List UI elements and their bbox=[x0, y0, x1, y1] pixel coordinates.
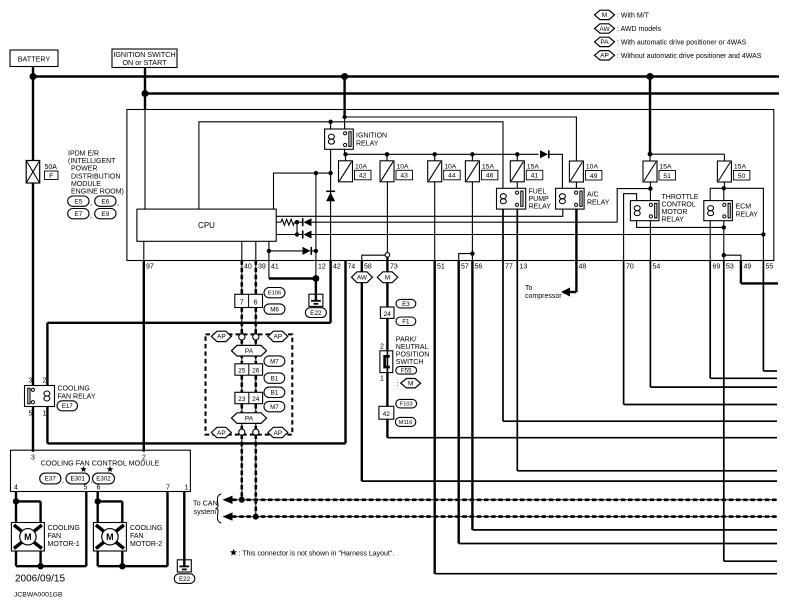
connector E5 bbox=[68, 196, 89, 206]
hexagon AP bottom-left bbox=[211, 427, 231, 437]
svg-text:RELAY: RELAY bbox=[587, 200, 610, 207]
wire 40 dashed mid bbox=[241, 308, 243, 335]
connector circle 73 bbox=[385, 253, 390, 258]
svg-text:15A: 15A bbox=[527, 163, 540, 170]
wire ECM contact top bbox=[723, 188, 725, 200]
node line C right bbox=[314, 249, 318, 253]
wire to ground E22 (IPDM) bbox=[315, 279, 317, 295]
svg-text:AP: AP bbox=[217, 334, 226, 341]
svg-text:PARK/: PARK/ bbox=[396, 337, 417, 344]
hexagon AP top-right bbox=[268, 331, 288, 341]
svg-text:AP: AP bbox=[274, 334, 283, 341]
svg-text:M6: M6 bbox=[270, 306, 279, 313]
svg-text:7: 7 bbox=[240, 299, 244, 306]
wire branch to 57 bbox=[459, 254, 473, 261]
svg-text:10A: 10A bbox=[586, 164, 599, 171]
hexagon AP bottom-right bbox=[268, 427, 288, 437]
wire 50A to cooling fan relay bbox=[32, 183, 34, 386]
connector box 24 (E3/F1) bbox=[380, 307, 394, 318]
node fuse50 bottom bbox=[722, 186, 726, 190]
relay cooling fan E17 bbox=[25, 386, 55, 407]
svg-text:77: 77 bbox=[505, 264, 513, 271]
wire 39 dashed to CAN bbox=[255, 435, 257, 517]
wire 58 to right edge bbox=[362, 480, 777, 482]
svg-text:M: M bbox=[24, 532, 32, 542]
connector M116 bbox=[395, 417, 415, 426]
node ignition relay coil tap bbox=[328, 120, 332, 124]
wire ignition relay contact top stub bbox=[344, 117, 346, 129]
connector E6 bbox=[95, 196, 116, 206]
connector F55 bbox=[396, 367, 417, 375]
svg-text:system: system bbox=[194, 507, 217, 516]
svg-text:58: 58 bbox=[364, 264, 372, 271]
svg-text:COOLING: COOLING bbox=[130, 525, 162, 532]
connector E302 bbox=[93, 473, 115, 484]
star E301 bbox=[80, 466, 86, 472]
svg-text:3: 3 bbox=[31, 455, 35, 462]
wire ignition relay contact bottom bbox=[344, 149, 346, 154]
node CAN1 wire40 bbox=[239, 497, 245, 503]
svg-text:PUMP: PUMP bbox=[529, 196, 550, 203]
svg-text:M: M bbox=[385, 275, 390, 282]
svg-text:RELAY: RELAY bbox=[736, 212, 759, 219]
svg-text:43: 43 bbox=[400, 173, 408, 180]
svg-text:ENGINE ROOM): ENGINE ROOM) bbox=[71, 189, 124, 196]
CAN bus line 1 bbox=[232, 499, 777, 501]
svg-text:AP: AP bbox=[274, 430, 283, 437]
svg-text:A/C: A/C bbox=[587, 192, 599, 199]
svg-text:FAN RELAY: FAN RELAY bbox=[58, 394, 96, 401]
wire to ECM coil top bbox=[710, 188, 724, 200]
fuse bus bbox=[345, 153, 539, 155]
hexagon AW on wire 58 bbox=[352, 272, 373, 283]
motor cooling fan motor-1 bbox=[11, 523, 44, 552]
battery box bbox=[10, 50, 58, 67]
hexagon M on wire 73 bbox=[377, 272, 397, 283]
svg-text:CPU: CPU bbox=[198, 221, 215, 230]
wire ECM contact bottom pin 53 bbox=[723, 221, 725, 261]
wire fuel pump coil bottom pin 77 bbox=[502, 209, 504, 421]
svg-text:53: 53 bbox=[726, 264, 734, 271]
fusible link 50A F bbox=[26, 161, 40, 184]
svg-text:6: 6 bbox=[97, 485, 101, 492]
svg-text:2: 2 bbox=[43, 378, 47, 385]
wire ignition relay feed bbox=[343, 77, 345, 118]
diode line B bbox=[304, 231, 312, 239]
svg-text:ECM: ECM bbox=[736, 204, 752, 211]
power bus line 1 bbox=[33, 75, 779, 77]
svg-text:10A: 10A bbox=[355, 163, 368, 170]
CPU box bbox=[137, 209, 276, 241]
svg-text:E301: E301 bbox=[71, 476, 86, 483]
connector F1 bbox=[396, 317, 416, 326]
svg-text:compressor: compressor bbox=[525, 293, 562, 300]
legend M: With M/T bbox=[595, 10, 615, 19]
wire 39 dashed mid bbox=[255, 308, 257, 335]
svg-text:IPDM E/R: IPDM E/R bbox=[68, 151, 99, 158]
wire fuse43 to connector circle bbox=[386, 182, 388, 253]
svg-text:42: 42 bbox=[359, 173, 367, 180]
wire 53 below bbox=[723, 261, 725, 562]
link A-B bbox=[296, 222, 298, 234]
svg-text:46: 46 bbox=[486, 173, 494, 180]
svg-text:15A: 15A bbox=[482, 163, 495, 170]
node line173 x330.6 bbox=[328, 171, 332, 175]
wire ignition switch drop bbox=[144, 68, 146, 111]
CAN bus line 2 bbox=[232, 516, 777, 518]
svg-text:COOLING: COOLING bbox=[48, 525, 80, 532]
relay ECM bbox=[704, 201, 733, 221]
wire ignition relay coil top bbox=[330, 122, 332, 129]
node fuse51 bottom bbox=[648, 186, 652, 190]
wire 73 to PNP switch bbox=[386, 318, 388, 350]
svg-text:E9: E9 bbox=[101, 211, 109, 218]
svg-text:,: , bbox=[90, 213, 92, 220]
svg-text:RELAY: RELAY bbox=[529, 204, 552, 211]
wire CPU pin to ignition relay coil and fuel pump coil bbox=[199, 122, 503, 209]
wire throttle coil bottom to wire53 bbox=[637, 221, 724, 228]
wire bus to A/C relay coil bbox=[549, 154, 562, 188]
connector box 7|6 bbox=[235, 294, 263, 307]
wire pin41 to pin12 link bbox=[269, 277, 316, 279]
connector E106 bbox=[264, 288, 285, 298]
wire 55 below bbox=[762, 261, 764, 372]
node bus1 x344 bbox=[341, 73, 348, 80]
svg-text:24: 24 bbox=[384, 311, 392, 318]
svg-text:25: 25 bbox=[238, 367, 246, 374]
diode on wire 42 bbox=[326, 192, 335, 201]
node line C left bbox=[267, 249, 271, 253]
svg-text:44: 44 bbox=[448, 173, 456, 180]
svg-text:F: F bbox=[49, 173, 53, 180]
wire 49 below bbox=[740, 261, 742, 284]
svg-text:57: 57 bbox=[461, 264, 469, 271]
wire ignition relay contact to fuse49 bbox=[345, 117, 577, 161]
node line B end bbox=[761, 232, 765, 236]
svg-text:48: 48 bbox=[579, 264, 587, 271]
wire ignition to CPU bbox=[144, 110, 146, 209]
svg-text:23: 23 bbox=[238, 396, 246, 403]
ground E22 (module) bbox=[177, 560, 191, 572]
svg-text:CONTROL: CONTROL bbox=[662, 202, 696, 209]
connector M7 upper bbox=[264, 356, 285, 366]
svg-text:73: 73 bbox=[390, 264, 398, 271]
svg-text:RELAY: RELAY bbox=[662, 217, 685, 224]
wire 42 to relay coil bbox=[329, 261, 331, 323]
svg-text:M: M bbox=[106, 532, 114, 542]
svg-text:10A: 10A bbox=[397, 163, 410, 170]
svg-text:,: , bbox=[90, 200, 92, 207]
svg-text:NEUTRAL: NEUTRAL bbox=[396, 344, 429, 351]
svg-text:E6: E6 bbox=[101, 198, 109, 205]
svg-text:AW: AW bbox=[599, 26, 610, 33]
svg-text:COOLING: COOLING bbox=[58, 386, 90, 393]
svg-text:41: 41 bbox=[531, 173, 539, 180]
svg-text:AP: AP bbox=[600, 53, 609, 60]
node CAN2 wire39 bbox=[253, 514, 259, 520]
legend AW: AWD models bbox=[595, 24, 615, 33]
svg-text:10A: 10A bbox=[444, 163, 457, 170]
hexagon PA bottom bbox=[232, 413, 267, 424]
hexagon PA top bbox=[232, 345, 267, 356]
wire 39 upper bbox=[255, 241, 257, 260]
svg-text:51: 51 bbox=[437, 264, 445, 271]
wire fuse41 to fuel pump contact bbox=[516, 182, 518, 188]
svg-text:12: 12 bbox=[318, 264, 326, 271]
wire module pin6 to motor2 bbox=[96, 492, 98, 523]
svg-text:39: 39 bbox=[258, 264, 266, 271]
svg-text:PA: PA bbox=[245, 348, 254, 355]
svg-text:70: 70 bbox=[626, 264, 634, 271]
svg-text:55: 55 bbox=[766, 264, 774, 271]
wire 57 down and right bbox=[458, 261, 460, 544]
wire branch to 58 bbox=[362, 255, 385, 260]
svg-text:24: 24 bbox=[252, 396, 260, 403]
wire 48 to compressor bbox=[575, 209, 577, 292]
svg-text:E5: E5 bbox=[74, 198, 82, 205]
star E302 bbox=[107, 466, 113, 472]
connector M7 lower bbox=[264, 401, 285, 411]
svg-text:B1: B1 bbox=[271, 390, 279, 397]
wire 74 to relay coil bbox=[344, 261, 346, 444]
svg-text:MOTOR: MOTOR bbox=[662, 209, 688, 216]
node fuse46 top bbox=[470, 152, 474, 156]
wire module pin1 to ground bbox=[183, 492, 185, 560]
relay A/C bbox=[556, 188, 585, 209]
wire fuse49 to A/C contact bbox=[575, 182, 577, 188]
svg-text:E22: E22 bbox=[310, 310, 322, 317]
fuse 10A 49 bbox=[569, 161, 583, 182]
svg-text:F103: F103 bbox=[400, 402, 413, 408]
node battery junction bbox=[30, 73, 37, 80]
legend PA: With automatic drive positioner or 4WAS bbox=[595, 37, 615, 46]
wire 39 dashed in box bbox=[255, 339, 257, 430]
svg-text:ON or START: ON or START bbox=[122, 58, 167, 67]
svg-text:MODULE: MODULE bbox=[71, 181, 101, 188]
connector B1 upper bbox=[264, 373, 285, 383]
svg-text:BATTERY: BATTERY bbox=[18, 55, 51, 64]
svg-text:3: 3 bbox=[29, 378, 33, 385]
svg-text:50: 50 bbox=[738, 173, 746, 180]
node fuse44 top bbox=[433, 152, 437, 156]
relay ignition bbox=[325, 129, 354, 149]
svg-text:B1: B1 bbox=[271, 375, 279, 382]
relay fuel pump bbox=[497, 188, 526, 209]
wire throttle contact pin 54 bbox=[649, 221, 651, 261]
svg-text:7: 7 bbox=[166, 485, 170, 492]
wire motor2 bottom to pin7 bbox=[96, 551, 98, 566]
svg-text:FUEL: FUEL bbox=[529, 189, 547, 196]
svg-text:THROTTLE: THROTTLE bbox=[662, 194, 699, 201]
wire relay pin5 to module pin3 bbox=[32, 407, 34, 452]
wire branch pin 49 bbox=[724, 255, 741, 260]
wire 97 CPU to module pin2 bbox=[143, 241, 145, 260]
svg-text:M: M bbox=[408, 381, 413, 388]
wire CPU sense line A bbox=[276, 221, 281, 223]
svg-text:40: 40 bbox=[244, 264, 252, 271]
cooling fan control module box bbox=[11, 450, 191, 491]
svg-text:1: 1 bbox=[380, 376, 384, 383]
connector E301 bbox=[66, 473, 90, 484]
wire 51 down and right bbox=[434, 261, 436, 574]
fuse 15A 51 bbox=[650, 153, 724, 155]
connector circle 39 top bbox=[253, 334, 259, 340]
svg-text:6: 6 bbox=[254, 299, 258, 306]
svg-text:IGNITION: IGNITION bbox=[356, 133, 387, 140]
svg-text:MOTOR-1: MOTOR-1 bbox=[48, 541, 80, 548]
wire 40 upper bbox=[241, 241, 243, 260]
wire CPU to A/C relay coil return bbox=[276, 209, 563, 216]
wire ECM coil bottom pin 69 bbox=[709, 221, 711, 261]
ignition switch box bbox=[112, 49, 177, 68]
node fuse42 top bbox=[343, 152, 347, 156]
power bus line 2 bbox=[145, 92, 779, 94]
svg-text:15A: 15A bbox=[660, 164, 673, 171]
svg-text:E106: E106 bbox=[268, 291, 282, 297]
svg-text:(INTELLIGENT: (INTELLIGENT bbox=[68, 158, 116, 165]
svg-text:FAN: FAN bbox=[130, 533, 144, 540]
connector E9 bbox=[95, 209, 116, 219]
wire module pin4 to motor1 bbox=[15, 492, 17, 523]
wire 70 below bbox=[623, 261, 625, 405]
svg-text:M: M bbox=[602, 12, 607, 19]
svg-text:: Without automatic drive posi: : Without automatic drive positioner and… bbox=[617, 53, 762, 60]
node line173 x315.9 bbox=[314, 171, 318, 175]
wire CPU sense line B bbox=[276, 234, 303, 236]
node fuse41 top bbox=[515, 152, 519, 156]
svg-text:1: 1 bbox=[43, 411, 47, 418]
fuse 15A 50 bbox=[723, 154, 725, 161]
svg-text:E22: E22 bbox=[179, 576, 191, 583]
svg-text:MOTOR-2: MOTOR-2 bbox=[130, 541, 162, 548]
svg-text:AP: AP bbox=[217, 430, 226, 437]
wire fuel pump contact pin 13 bbox=[516, 209, 518, 471]
svg-text:F55: F55 bbox=[401, 368, 412, 375]
svg-text:15A: 15A bbox=[734, 164, 747, 171]
wire CPU pin 41 bbox=[268, 241, 270, 278]
fuse 10A 43 bbox=[386, 154, 388, 161]
diode line A bbox=[304, 218, 312, 226]
svg-text:1: 1 bbox=[185, 485, 189, 492]
node ground junction bbox=[313, 275, 320, 282]
wire fuse51 bottom bbox=[649, 182, 651, 201]
node resistor junction B bbox=[295, 232, 299, 236]
connector box 25|26 bbox=[235, 364, 263, 375]
svg-text:F1: F1 bbox=[402, 318, 410, 325]
svg-text:97: 97 bbox=[146, 264, 154, 271]
wire 70 to throttle coil bbox=[624, 194, 637, 261]
wire 40 dashed in box bbox=[241, 339, 243, 430]
svg-text:: This connector is not shown: : This connector is not shown in "Harnes… bbox=[239, 551, 395, 558]
svg-text:RELAY: RELAY bbox=[356, 141, 379, 148]
connector E3 bbox=[396, 299, 416, 308]
svg-text:E3: E3 bbox=[402, 301, 410, 308]
svg-text:E7: E7 bbox=[74, 211, 82, 218]
svg-text:41: 41 bbox=[271, 264, 279, 271]
connector E17 bbox=[57, 401, 78, 411]
svg-text:42: 42 bbox=[333, 264, 341, 271]
connector circle 40 bottom bbox=[239, 429, 245, 435]
motor cooling fan motor-2 bbox=[93, 523, 126, 552]
node bus1 x650 bbox=[647, 73, 654, 80]
relay throttle control motor bbox=[630, 201, 659, 221]
wire 40 dashed to CAN bbox=[241, 435, 243, 500]
svg-text:M7: M7 bbox=[270, 404, 279, 411]
fuse 10A 44 bbox=[434, 154, 436, 161]
svg-text:2006/09/15: 2006/09/15 bbox=[15, 574, 65, 585]
hexagon AP top-left bbox=[211, 331, 231, 341]
wire CPU to line y173 bbox=[274, 173, 331, 209]
svg-text:POSITION: POSITION bbox=[396, 352, 429, 359]
svg-text:2: 2 bbox=[380, 344, 384, 351]
wire battery drop bbox=[32, 67, 34, 161]
wire fuse50 bottom bbox=[723, 182, 725, 188]
svg-text:13: 13 bbox=[520, 264, 528, 271]
svg-text:: AWD models: : AWD models bbox=[617, 26, 662, 33]
wire 56 down and right bbox=[471, 261, 473, 530]
wire ignition relay coil bottom to diode to pin42 bbox=[330, 149, 332, 260]
wire fuse46 down bbox=[471, 182, 473, 261]
svg-text:: With M/T: : With M/T bbox=[617, 13, 650, 20]
svg-text:POWER: POWER bbox=[71, 166, 97, 173]
svg-text:E17: E17 bbox=[62, 403, 74, 410]
wire 58 down bbox=[361, 261, 363, 482]
svg-text:M7: M7 bbox=[270, 358, 279, 365]
ground E22 (IPDM) bbox=[309, 294, 323, 306]
IPDM E/R box bbox=[127, 110, 774, 261]
connector box 23|24 bbox=[235, 392, 263, 403]
svg-text:26: 26 bbox=[252, 367, 260, 374]
svg-text:PA: PA bbox=[600, 39, 609, 46]
svg-text:To: To bbox=[525, 285, 533, 292]
svg-text:4: 4 bbox=[14, 485, 18, 492]
connector box 42 (F103/M116) bbox=[379, 406, 394, 419]
wire to pin 55 bbox=[724, 188, 764, 260]
node fuse43 top bbox=[385, 152, 389, 156]
svg-text:56: 56 bbox=[475, 264, 483, 271]
wire PNP to box42 bbox=[386, 373, 388, 407]
connector B1 lower bbox=[264, 387, 285, 397]
svg-text:E302: E302 bbox=[96, 476, 111, 483]
svg-text:,: , bbox=[117, 200, 119, 207]
svg-text:49: 49 bbox=[744, 264, 752, 271]
svg-text:54: 54 bbox=[653, 264, 661, 271]
svg-text:E37: E37 bbox=[45, 476, 57, 483]
legend AP: Without automatic drive positioner and 4WAS bbox=[595, 51, 615, 60]
svg-text:PA: PA bbox=[245, 415, 254, 422]
fuse 15A 46 bbox=[471, 154, 473, 161]
connector circle 40 top bbox=[239, 334, 245, 340]
option box dashed bbox=[206, 334, 293, 434]
diode on fuse bus bbox=[540, 150, 548, 158]
node resistor junction A bbox=[295, 220, 299, 224]
svg-text:51: 51 bbox=[663, 173, 671, 180]
svg-text:50A: 50A bbox=[45, 164, 58, 171]
line C with diode bbox=[269, 250, 303, 252]
wire fuse51/50 feed bbox=[649, 77, 651, 155]
svg-text:AW: AW bbox=[357, 275, 368, 282]
footnote star bbox=[230, 549, 237, 556]
park/neutral position switch F55 bbox=[380, 351, 393, 373]
node wire53 pin49 branch bbox=[722, 253, 726, 257]
connector circle 39 bottom bbox=[253, 429, 259, 435]
hexagon M option bbox=[401, 379, 421, 388]
node wire53 x coil return bbox=[722, 225, 726, 229]
svg-text::: : bbox=[397, 381, 399, 388]
node 56/57 branch bbox=[470, 251, 474, 255]
wire fuse44 to pin 51 bbox=[434, 182, 436, 261]
svg-text:2: 2 bbox=[142, 455, 146, 462]
